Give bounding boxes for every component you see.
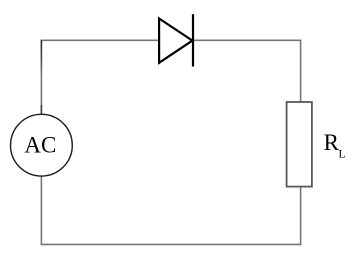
svg-text:R: R (324, 130, 340, 155)
svg-text:AC: AC (24, 133, 56, 158)
svg-text:L: L (339, 149, 346, 161)
